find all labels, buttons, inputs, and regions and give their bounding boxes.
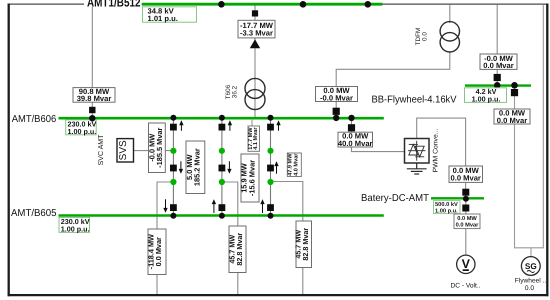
svg-text:V: V xyxy=(462,257,471,271)
svg-text:40.0 Mvar: 40.0 Mvar xyxy=(338,139,373,148)
result box 15.9 MW -15.6 Mvar (rotated) xyxy=(240,154,259,202)
svg-text:PWM Conve...: PWM Conve... xyxy=(433,128,440,172)
result box 45.7 MW 82.8 Mvar load 2 (rotated) xyxy=(227,226,246,273)
feeder 2 top breaker xyxy=(219,124,226,131)
breaker TDFM LV xyxy=(333,108,340,115)
wire feeder 2 (B606-B605) xyxy=(221,118,223,216)
svg-text:1.00 p.u.: 1.00 p.u. xyxy=(61,224,90,233)
svg-text:82.8 Mvar: 82.8 Mvar xyxy=(301,228,310,261)
result box 0.0 MW -0.0 Mvar (TDFM LV) xyxy=(316,86,358,102)
PWM converter U-PWM xyxy=(405,139,430,164)
breaker B606 to PWM xyxy=(348,124,355,131)
wire feeder 3 (B606-B605) xyxy=(270,118,272,216)
node dot on B512 xyxy=(300,1,307,8)
svg-text:AMT/B605: AMT/B605 xyxy=(11,208,57,219)
wire top border line (AMT1/B512 net) xyxy=(8,3,548,5)
breaker below battery bus xyxy=(462,205,469,212)
wire load tap feeder 1 xyxy=(157,182,173,294)
svg-text:0.0 MW: 0.0 MW xyxy=(457,216,477,222)
wire TDFM lower lead elbow to B606 xyxy=(336,52,450,117)
svg-text:SVC AMT: SVC AMT xyxy=(98,134,105,165)
result box 230.0 kV 1.00 p.u. (B606) xyxy=(66,119,97,135)
label T606 36.2 xyxy=(225,84,239,99)
svg-text:-185.5 Mvar: -185.5 Mvar xyxy=(155,127,164,167)
result box 45.7 MW 82.8 Mvar load 3 (rotated) xyxy=(293,221,311,268)
svg-text:AMT1/B512: AMT1/B512 xyxy=(87,0,141,10)
svg-text:0.0 Mvar: 0.0 Mvar xyxy=(497,116,527,125)
svg-text:0.0 Mvar: 0.0 Mvar xyxy=(456,223,480,229)
node dot BB bus left xyxy=(494,82,501,89)
result box 90.8 MW 39.8 Mvar xyxy=(73,87,115,103)
svg-text:0.0 Mvar: 0.0 Mvar xyxy=(450,174,480,183)
svg-text:1.00 p.u.: 1.00 p.u. xyxy=(68,127,97,136)
feeder 1 bottom breaker xyxy=(170,204,177,211)
feeder 2 upper isolator dot xyxy=(219,148,225,154)
node dot B606 f2 xyxy=(219,115,225,121)
svg-text:-3.3 Mvar: -3.3 Mvar xyxy=(240,29,273,38)
wire PWM top lead to battery bus xyxy=(417,118,466,197)
feeder 1 middle switch xyxy=(170,165,177,172)
result box -0.0 MW 0.0 Mvar (top right) xyxy=(480,54,517,70)
node dot on B512 xyxy=(365,1,372,8)
transformer TDFM xyxy=(440,22,459,52)
svg-text:39.8 Mvar: 39.8 Mvar xyxy=(77,94,112,103)
wire load tap feeder 2 xyxy=(222,182,238,294)
feeder 2 bottom arrow up xyxy=(212,199,216,213)
breaker on B512-B606 line xyxy=(89,107,95,113)
result box 17.7 MW 4.1 Mvar (rotated small) xyxy=(248,126,260,151)
result box -0.0 MW -185.5 Mvar (rotated) xyxy=(147,123,165,173)
wire line B512 to B606 xyxy=(91,7,93,118)
feeder 3 lower isolator dot xyxy=(267,179,273,185)
node dot battery bus xyxy=(463,196,469,202)
svg-text:Flywheel ..: Flywheel .. xyxy=(515,278,547,285)
svg-text:AMT/B606: AMT/B606 xyxy=(12,114,57,125)
result box 500.0 kV 1.00 p.u. (mini) xyxy=(434,201,461,215)
svg-text:4.1 Mvar: 4.1 Mvar xyxy=(253,127,259,150)
feeder 1 bottom arrow down xyxy=(163,199,167,212)
feeder 1 top arrow up xyxy=(179,120,183,131)
result box 0.0 MW 0.0 Mvar (above battery bus) xyxy=(449,166,483,183)
svg-text:36.2: 36.2 xyxy=(232,85,239,98)
svg-text:0.0 Mvar: 0.0 Mvar xyxy=(154,237,163,266)
node dot BB bus right xyxy=(511,82,518,89)
feeder 1 top breaker xyxy=(170,124,177,131)
ground under PWM xyxy=(407,163,427,174)
arrow up on T606 branch xyxy=(250,39,260,48)
svg-text:SVS: SVS xyxy=(118,140,129,160)
feeder 3 middle arrow up xyxy=(274,161,278,173)
node dot on B512 xyxy=(218,1,225,8)
label TDFM 0.0 xyxy=(415,28,429,46)
feeder 3 bottom breaker xyxy=(267,204,274,211)
svg-text:0.0 Mvar: 0.0 Mvar xyxy=(483,61,513,70)
svg-text:500.0 kV: 500.0 kV xyxy=(435,201,458,208)
node dot B606 f1 xyxy=(170,115,176,121)
DC voltage source V xyxy=(457,255,475,273)
svg-text:4.0 Mvar: 4.0 Mvar xyxy=(293,153,299,176)
breaker on T606 HV side xyxy=(252,10,258,16)
node dot B606 f3 xyxy=(268,115,274,121)
result box 0.0 MW 40.0 Mvar xyxy=(338,132,373,148)
feeder 3 bottom arrow up xyxy=(260,199,264,213)
feeder 3 upper isolator dot xyxy=(267,148,273,154)
wire feeder 1 (B606-B605) xyxy=(172,118,174,216)
wire B512 to BB-Flywheel bus xyxy=(496,5,498,86)
breaker above battery bus xyxy=(462,189,469,196)
result box 230.0 kV 1.00 p.u. (B605) xyxy=(59,217,90,233)
svg-text:1.00 p.u.: 1.00 p.u. xyxy=(472,94,501,103)
svg-text:185.2 Mvar: 185.2 Mvar xyxy=(193,148,202,186)
wire battery bus to DC voltage source xyxy=(465,199,467,255)
svg-text:1.01 p.u.: 1.01 p.u. xyxy=(148,14,178,23)
bus AMT/B605 xyxy=(59,214,384,216)
feeder 1 middle arrow down xyxy=(179,161,183,173)
result box 5.0 MW 185.2 Mvar (rotated) xyxy=(185,141,205,194)
node dot B606 x92 xyxy=(89,115,95,121)
svg-text:0.0: 0.0 xyxy=(525,285,534,292)
synchronous machine SG flywheel xyxy=(521,257,540,276)
result box 0.0 MW 0.0 Mvar (mini, DC source) xyxy=(454,214,480,229)
wire B606 to PWM converter xyxy=(352,119,405,152)
feeder 2 top arrow up xyxy=(228,120,232,131)
bus BB-Flywheel-4.16kV xyxy=(465,84,531,86)
SVS device symbol xyxy=(117,139,134,162)
label AMT1/B512 xyxy=(84,0,142,7)
wire result-box connector T606 LV side xyxy=(251,120,253,126)
node dot B606 TDFM xyxy=(333,115,339,121)
feeder 2 bottom node dot xyxy=(219,213,225,219)
transformer T606 xyxy=(245,78,265,109)
breaker below BB bus xyxy=(511,89,518,96)
svg-text:SG: SG xyxy=(525,262,537,271)
svg-text:BB-Flywheel-4.16kV: BB-Flywheel-4.16kV xyxy=(372,94,457,105)
wire TDFM branch from top xyxy=(449,5,451,24)
breaker above BB-Flywheel bus xyxy=(494,74,501,81)
result box 34.8 kV 1.01 p.u. xyxy=(143,7,197,23)
feeder 2 lower isolator dot xyxy=(219,179,225,185)
svg-text:82.8 Mvar: 82.8 Mvar xyxy=(235,233,244,266)
svg-text:DC - Volt..: DC - Volt.. xyxy=(450,283,480,290)
feeder 1 lower isolator dot xyxy=(170,179,176,185)
feeder 2 middle arrow down xyxy=(227,161,231,173)
result box 47.9 MW 4.0 Mvar (rotated small) xyxy=(287,153,301,177)
feeder 1 bottom node dot xyxy=(170,213,176,219)
result box -118.4 MW 0.0 Mvar (rotated) xyxy=(147,229,166,275)
feeder 3 top arrow up xyxy=(276,120,280,131)
bus Batery-DC-AMT xyxy=(431,197,484,199)
bus AMT/B606 xyxy=(59,117,384,120)
node dot B606 PWM xyxy=(348,115,354,121)
feeder 2 bottom breaker xyxy=(219,204,226,211)
svg-text:Batery-DC-AMT: Batery-DC-AMT xyxy=(361,193,429,204)
bus AMT1/B512 xyxy=(142,3,383,6)
wire T606 branch vertical xyxy=(254,5,256,118)
feeder 3 bottom node dot xyxy=(268,213,274,219)
svg-text:-0.0 Mvar: -0.0 Mvar xyxy=(320,93,353,102)
feeder 3 top breaker xyxy=(267,124,274,131)
wire BB-Flywheel bus down to SG elbow xyxy=(515,86,532,248)
feeder 1 upper isolator dot xyxy=(170,148,176,154)
svg-text:0.0: 0.0 xyxy=(421,32,428,41)
feeder 3 middle switch xyxy=(267,165,274,172)
svg-text:-15.6 Mvar: -15.6 Mvar xyxy=(247,160,256,196)
result box 4.2 kV 1.00 p.u. xyxy=(465,87,507,103)
wire load tap feeder 3 xyxy=(271,182,303,295)
wire top border to SG elbow xyxy=(531,5,543,257)
feeder 2 middle switch xyxy=(219,165,226,172)
wire SVS connection to feeder 1 xyxy=(133,150,173,152)
svg-text:1.00 p.u.: 1.00 p.u. xyxy=(435,208,458,214)
result box -17.7 MW -3.3 Mvar xyxy=(238,20,275,38)
result box 0.0 MW 0.0 Mvar (below BB bus) xyxy=(494,108,530,124)
